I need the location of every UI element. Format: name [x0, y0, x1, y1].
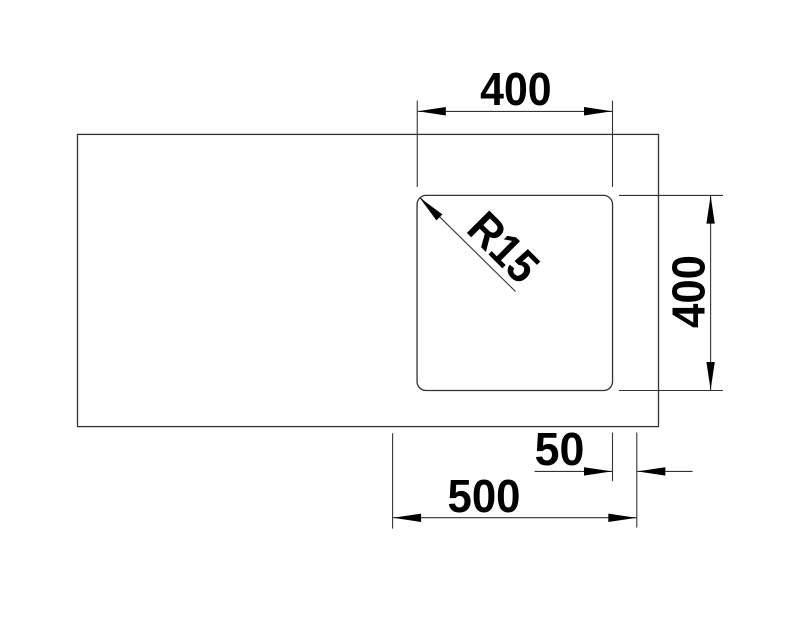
extension line left of bottom 500 dimension: [392, 433, 394, 528]
arrowhead 50 pointing left: [637, 467, 665, 475]
extension line left of 50 dimension: [612, 433, 614, 482]
extension line top of right 400 dimension: [619, 194, 723, 196]
extension line bottom of right 400 dimension: [619, 390, 723, 392]
sink outer outline: [78, 134, 659, 426]
svg-text:400: 400: [480, 63, 552, 115]
dimension leader left of 50: [535, 470, 612, 472]
extension line right of 50 / 500 dimension: [636, 433, 638, 528]
arrowhead top of right 400: [706, 196, 714, 224]
extension line right of top 400 dimension: [612, 101, 614, 187]
arrowhead bottom of right 400: [706, 362, 714, 390]
svg-text:500: 500: [448, 470, 521, 522]
arrowhead right of top 400: [584, 107, 612, 115]
svg-text:50: 50: [535, 423, 585, 475]
bowl outline R15: [417, 195, 613, 390]
dimension line bottom 500: [393, 517, 636, 519]
leader arrowhead R15: [420, 198, 443, 221]
leader line R15: [420, 197, 516, 291]
extension line left of top 400 dimension: [416, 101, 418, 187]
svg-text:400: 400: [663, 255, 715, 328]
arrowhead left of 500: [393, 514, 421, 522]
dimension leader right of 50: [637, 470, 692, 472]
arrowhead 50 pointing right: [584, 467, 612, 475]
arrowhead left of top 400: [418, 107, 446, 115]
svg-text:R15: R15: [458, 201, 550, 293]
dimension line top 400: [418, 110, 612, 112]
dimension line right 400: [710, 196, 712, 390]
arrowhead right of 500: [608, 514, 636, 522]
